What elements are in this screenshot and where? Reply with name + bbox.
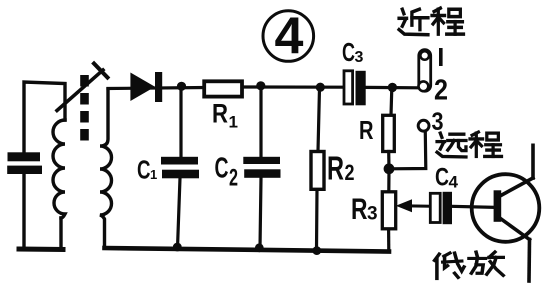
node: junction C2 bottom (255, 243, 264, 252)
wire: R bottom to junction (387, 152, 390, 170)
svg-text:C: C (215, 153, 229, 185)
char 程 (432, 8, 464, 34)
earphone jack plug (contacts 1-2) (419, 50, 431, 92)
svg-text:3: 3 (432, 108, 444, 136)
transistor collector (499, 145, 533, 196)
svg-text:C: C (435, 164, 449, 192)
diode D1 (130, 72, 162, 102)
wire: main top rail (108, 88, 204, 89)
capacitor C2 (243, 157, 280, 178)
wire: left tank loop bottom (19, 247, 63, 253)
svg-text:R: R (351, 193, 368, 226)
svg-text:R: R (327, 150, 344, 187)
label R2 (327, 150, 355, 187)
svg-text:R: R (212, 98, 228, 128)
inductor L1 primary coil (53, 120, 65, 218)
label R1 (212, 98, 238, 131)
char 程 (470, 132, 502, 156)
node: junction R2 top (316, 83, 325, 92)
svg-text:3: 3 (355, 49, 364, 66)
node: junction C1 bottom (173, 243, 182, 252)
resistor R3 potentiometer (382, 192, 395, 229)
wire: primary coil bottom lead (59, 218, 62, 248)
char 低 (435, 253, 465, 278)
svg-text:2: 2 (229, 165, 238, 192)
adjustable core arrow (57, 64, 108, 111)
wire: R2 branch (317, 88, 320, 250)
capacitor tuning (left tank) (7, 152, 42, 174)
potentiometer wiper arrow (396, 199, 430, 212)
char 远 (437, 133, 466, 157)
svg-text:2: 2 (345, 160, 355, 185)
char 放 (469, 252, 503, 275)
svg-text:1: 1 (150, 167, 157, 182)
label 低放 (audio amplifier) (435, 252, 504, 278)
contact 3 circle (418, 120, 429, 131)
label C3 (342, 37, 364, 67)
svg-text:R: R (359, 115, 374, 145)
node: junction after R1 (256, 81, 265, 90)
wire: C1 branch (178, 87, 182, 248)
transformer core (dashed) (80, 75, 89, 146)
resistor R1 (204, 81, 242, 96)
transistor emitter (499, 218, 530, 282)
resistor R (383, 115, 395, 151)
wire: main bottom rail (ground) (105, 248, 390, 252)
resistor R2 (311, 152, 324, 190)
wire: left tank loop top and left side (24, 82, 65, 248)
char 近 (399, 9, 428, 34)
node: junction below R (384, 163, 395, 174)
svg-text:C: C (137, 155, 151, 185)
capacitor C4 (430, 192, 452, 224)
wire: C2 branch (260, 86, 261, 248)
node: junction C3 right (388, 83, 397, 92)
capacitor C1 (161, 157, 199, 179)
svg-text:1: 1 (229, 113, 238, 132)
wire: base lead (452, 206, 494, 207)
label C2 (215, 153, 239, 192)
label C1 (137, 155, 157, 185)
label R3 (351, 193, 378, 226)
label 远程 (far range) (437, 132, 501, 157)
transistor Q1 circle (472, 174, 540, 242)
node: junction after diode (177, 82, 186, 91)
svg-text:3: 3 (367, 204, 378, 225)
capacitor C3 (344, 71, 366, 106)
svg-text:4: 4 (449, 172, 459, 191)
label C4 (435, 164, 459, 192)
svg-text:4: 4 (275, 8, 304, 66)
transistor base bar (494, 190, 502, 222)
figure number 4 circled (263, 8, 314, 66)
wire: R3 branch (387, 169, 391, 252)
wire: R branch down from top rail (389, 88, 393, 116)
node: junction R2 bottom (312, 246, 321, 255)
label 1 (439, 48, 443, 66)
wire: junction to contact 3 (389, 133, 426, 169)
inductor L2 secondary coil (100, 89, 112, 248)
svg-text:2: 2 (434, 75, 448, 107)
svg-text:C: C (342, 37, 355, 67)
label 近程 (near range) (399, 8, 463, 35)
